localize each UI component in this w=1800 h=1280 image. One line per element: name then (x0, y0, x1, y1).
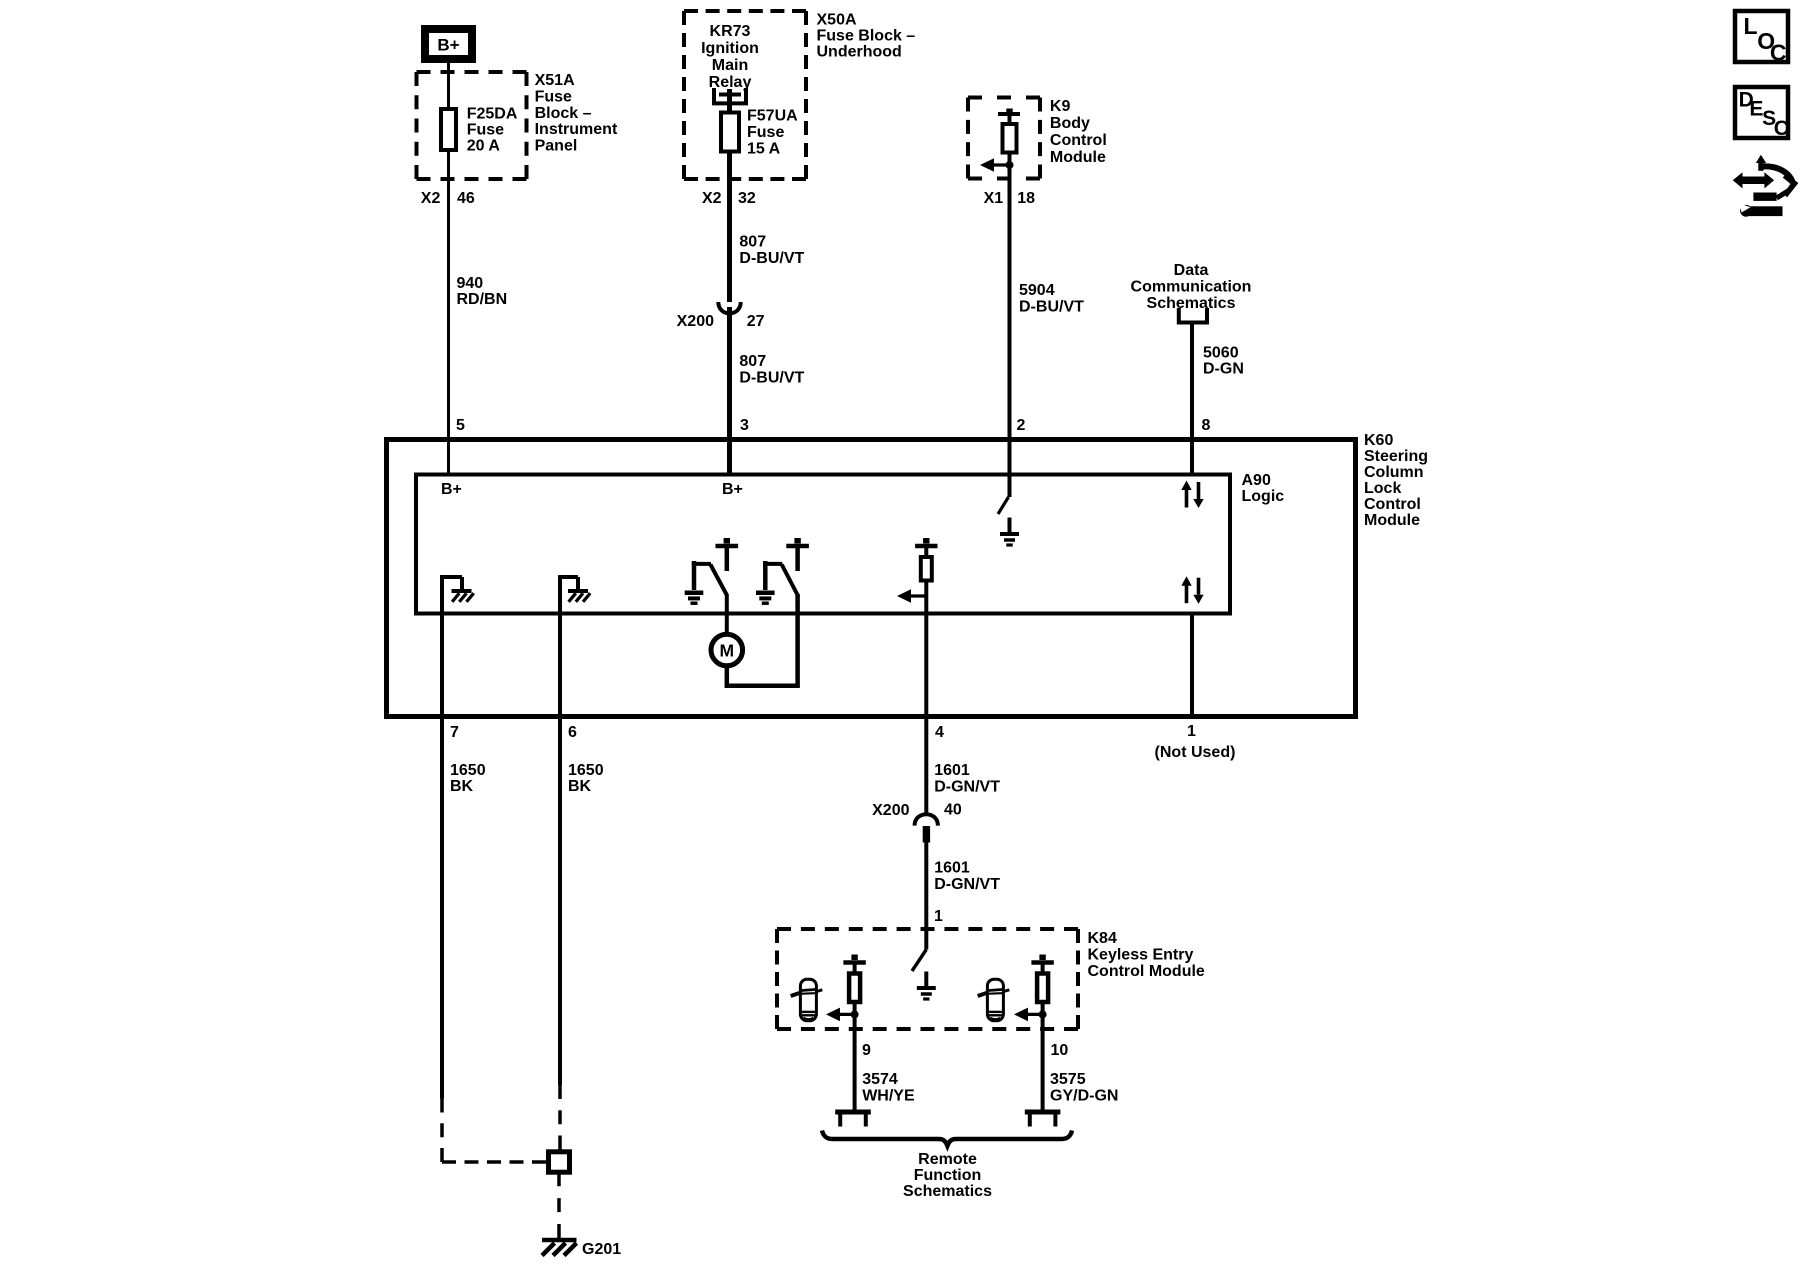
svg-text:Keyless Entry: Keyless Entry (1088, 947, 1194, 964)
svg-text:KR73: KR73 (710, 23, 751, 40)
svg-text:Control: Control (1364, 496, 1421, 513)
svg-text:20 A: 20 A (467, 138, 501, 155)
svg-text:Body: Body (1050, 115, 1090, 132)
svg-text:G201: G201 (582, 1241, 621, 1258)
svg-text:Control: Control (1050, 132, 1107, 149)
svg-text:L: L (1744, 13, 1758, 39)
svg-text:9: 9 (862, 1042, 871, 1059)
svg-text:46: 46 (457, 190, 475, 207)
svg-text:3: 3 (740, 417, 749, 434)
svg-text:Module: Module (1364, 512, 1420, 529)
svg-text:Fuse: Fuse (467, 122, 504, 139)
svg-text:B+: B+ (441, 481, 462, 498)
svg-text:K9: K9 (1050, 98, 1071, 115)
svg-text:1: 1 (1187, 723, 1196, 740)
svg-text:Column: Column (1364, 464, 1424, 481)
svg-text:Underhood: Underhood (817, 44, 902, 61)
svg-text:D-BU/VT: D-BU/VT (1019, 299, 1084, 316)
svg-text:40: 40 (944, 802, 962, 819)
svg-text:BK: BK (568, 778, 592, 795)
svg-text:940: 940 (457, 275, 484, 292)
svg-text:1650: 1650 (568, 762, 604, 779)
svg-text:B+: B+ (722, 481, 743, 498)
svg-text:1650: 1650 (450, 762, 486, 779)
svg-text:8: 8 (1202, 417, 1211, 434)
svg-text:10: 10 (1051, 1042, 1069, 1059)
svg-text:5904: 5904 (1019, 282, 1055, 299)
svg-text:Steering: Steering (1364, 448, 1428, 465)
svg-text:1601: 1601 (934, 762, 970, 779)
svg-text:K60: K60 (1364, 432, 1393, 449)
svg-text:Fuse: Fuse (747, 124, 784, 141)
svg-text:Fuse: Fuse (535, 88, 572, 105)
svg-text:RD/BN: RD/BN (457, 291, 508, 308)
svg-text:X2: X2 (702, 190, 722, 207)
svg-text:7: 7 (450, 724, 459, 741)
svg-text:6: 6 (568, 724, 577, 741)
svg-text:F25DA: F25DA (467, 106, 518, 123)
svg-text:X2: X2 (421, 190, 441, 207)
svg-text:D-GN/VT: D-GN/VT (934, 779, 1000, 796)
svg-text:D-BU/VT: D-BU/VT (739, 370, 804, 387)
svg-text:GY/D-GN: GY/D-GN (1050, 1088, 1118, 1105)
svg-text:3575: 3575 (1050, 1071, 1086, 1088)
svg-text:M: M (720, 641, 735, 661)
svg-text:5060: 5060 (1203, 345, 1239, 362)
svg-text:5: 5 (456, 417, 465, 434)
svg-text:C: C (1774, 117, 1789, 140)
svg-text:X51A: X51A (535, 72, 575, 89)
svg-text:D-BU/VT: D-BU/VT (739, 250, 804, 267)
svg-text:Data: Data (1174, 262, 1209, 279)
svg-text:Logic: Logic (1242, 488, 1285, 505)
svg-text:K84: K84 (1088, 930, 1117, 947)
svg-text:C: C (1770, 40, 1787, 66)
svg-text:WH/YE: WH/YE (862, 1088, 915, 1105)
svg-text:18: 18 (1017, 190, 1035, 207)
svg-text:3574: 3574 (862, 1071, 898, 1088)
svg-text:Schematics: Schematics (1147, 295, 1236, 312)
svg-text:X200: X200 (677, 313, 714, 330)
svg-text:1601: 1601 (934, 860, 970, 877)
svg-text:Control Module: Control Module (1088, 963, 1205, 980)
svg-text:X1: X1 (984, 190, 1004, 207)
svg-text:807: 807 (739, 234, 766, 251)
svg-text:Instrument: Instrument (535, 121, 618, 138)
svg-text:4: 4 (935, 724, 944, 741)
svg-text:BK: BK (450, 778, 474, 795)
svg-text:Module: Module (1050, 149, 1106, 166)
svg-text:F57UA: F57UA (747, 108, 798, 125)
svg-text:2: 2 (1017, 417, 1026, 434)
svg-text:Block –: Block – (535, 105, 592, 122)
svg-text:Remote: Remote (918, 1151, 977, 1168)
svg-text:Ignition: Ignition (701, 40, 759, 57)
svg-text:Communication: Communication (1131, 279, 1252, 296)
svg-text:Lock: Lock (1364, 480, 1401, 497)
svg-text:27: 27 (747, 313, 765, 330)
svg-text:807: 807 (739, 353, 766, 370)
svg-text:Main: Main (712, 57, 748, 74)
svg-text:15 A: 15 A (747, 141, 781, 158)
svg-text:D-GN: D-GN (1203, 361, 1244, 378)
svg-text:1: 1 (934, 908, 943, 925)
svg-text:(Not Used): (Not Used) (1155, 744, 1236, 761)
svg-text:X200: X200 (872, 802, 909, 819)
svg-text:Panel: Panel (535, 138, 578, 155)
svg-text:B+: B+ (437, 36, 459, 55)
svg-text:Fuse Block –: Fuse Block – (817, 28, 916, 45)
svg-text:D-GN/VT: D-GN/VT (934, 876, 1000, 893)
svg-text:Schematics: Schematics (903, 1183, 992, 1200)
svg-text:X50A: X50A (817, 12, 857, 29)
svg-text:A90: A90 (1242, 472, 1271, 489)
svg-text:Function: Function (914, 1167, 982, 1184)
svg-text:32: 32 (738, 190, 756, 207)
